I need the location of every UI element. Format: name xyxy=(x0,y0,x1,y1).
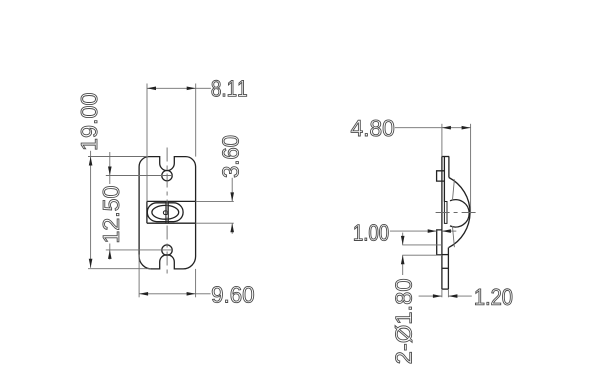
arrow 4.80 left xyxy=(442,126,451,130)
arrow dia bottom (outside, below) xyxy=(401,255,405,264)
arrow 12.50 top (outside, above) xyxy=(108,167,112,176)
lower-left tab xyxy=(437,230,442,255)
arrow 9.60 right xyxy=(187,292,196,296)
dim 9.60 right extension xyxy=(195,269,197,297)
side back face line xyxy=(441,157,443,290)
dim 8.11 leader xyxy=(196,87,211,89)
cross tick hole level xyxy=(442,254,449,256)
dim dia line lower stub xyxy=(402,255,404,275)
center slit left line xyxy=(165,201,167,223)
dim 12.50 top extension xyxy=(106,175,173,177)
arrow 3.60 top (outside, above) xyxy=(230,192,234,201)
dim 9.60 line xyxy=(139,293,196,295)
dim 3.60 line upper xyxy=(231,178,233,202)
dome silhouette upper xyxy=(452,179,454,201)
tiny center slot xyxy=(163,211,168,215)
dim 8.11 left extension / band edge extension xyxy=(146,84,148,202)
dim 3.60 bottom extension xyxy=(196,222,234,224)
dim 19.00 top extension xyxy=(88,156,148,158)
dim 4.80 right extension xyxy=(470,124,472,214)
dim 8.11 line xyxy=(147,87,196,89)
label 3.60 (rotated) xyxy=(222,136,238,177)
dim 4.80 left extension xyxy=(441,124,443,157)
label 9.60 xyxy=(212,286,254,302)
upper-left tab xyxy=(437,171,445,181)
dim dia line upper stub xyxy=(402,233,404,245)
dim 1.00 right stub xyxy=(442,230,456,232)
outer oval (stadium) xyxy=(147,203,183,222)
centerline vertical front view xyxy=(166,148,168,278)
dim 12.50 line lower stub xyxy=(109,244,111,260)
arrow 1.00 left-pointing (tip at plate back) xyxy=(442,229,451,233)
label 12.50 (rotated) xyxy=(103,186,119,241)
dim dia hole top extension xyxy=(402,244,442,246)
dim 3.60 top extension xyxy=(196,200,234,202)
hole bottom circle xyxy=(162,245,172,255)
middle bump arc xyxy=(450,200,469,227)
label 2-dia1.80 (rotated) xyxy=(395,279,412,363)
side inner tab line xyxy=(443,157,445,202)
dim 12.50 bottom extension xyxy=(106,249,173,251)
arrow 1.00 right-pointing (tip at tab face) xyxy=(428,229,437,233)
dim 3.60 line lower xyxy=(231,223,233,234)
arrow 1.20 left (outside, pointing right) xyxy=(433,294,442,298)
label 19.00 (rotated) xyxy=(81,93,97,149)
side band slot rect xyxy=(444,202,447,224)
dim 1.20 right leader xyxy=(448,295,471,297)
label 1.00 xyxy=(354,224,388,240)
cross tick plate bottom level xyxy=(442,267,449,269)
dim 9.60 left extension xyxy=(138,255,140,298)
center slit right line xyxy=(167,201,169,223)
dim 4.80 leader xyxy=(395,127,442,129)
inner ellipse xyxy=(152,205,179,219)
band left edge xyxy=(146,201,148,223)
arrow 8.11 left xyxy=(147,87,156,91)
hole top circle xyxy=(162,170,172,180)
dim 19.00 line xyxy=(90,151,92,268)
arrow 4.80 right xyxy=(462,126,471,130)
dim 8.11 right extension xyxy=(195,84,197,157)
dim 4.80 line xyxy=(442,127,471,129)
big dome arc xyxy=(449,178,470,248)
dim 1.20 left leader xyxy=(419,295,442,297)
arrow dia top (outside, above) xyxy=(401,236,405,245)
dim 19.00 bottom extension xyxy=(88,268,151,270)
side front face upper line xyxy=(448,157,450,178)
plate outline with notches xyxy=(139,157,196,269)
arrow 9.60 left xyxy=(139,292,148,296)
arrow 19.00 bottom xyxy=(89,259,93,268)
band bottom line xyxy=(147,222,196,224)
dim 12.50 line upper stub xyxy=(109,152,111,184)
dim 1.20 left extension xyxy=(441,289,443,297)
side bottom edge tick xyxy=(442,288,449,290)
label 8.11 xyxy=(212,80,247,96)
centerline horizontal side view xyxy=(436,212,477,214)
label 4.80 xyxy=(351,120,394,136)
dim 1.20 right extension xyxy=(447,289,449,297)
dim 1.00 leader xyxy=(390,230,437,232)
arrow 1.20 right (outside, pointing left) xyxy=(448,294,457,298)
arrow 19.00 top xyxy=(89,157,93,166)
side front face lower line xyxy=(447,248,449,290)
band top line xyxy=(147,200,196,202)
arrow 12.50 bottom (outside, below) xyxy=(108,250,112,259)
arrow 3.60 bottom (outside, below) xyxy=(230,223,234,232)
dim 9.60 leader xyxy=(196,293,211,295)
arrow 8.11 right xyxy=(187,87,196,91)
side top edge tick xyxy=(442,156,449,158)
dim dia hole bottom extension xyxy=(402,254,442,256)
label 1.20 xyxy=(475,289,512,305)
dome silhouette lower xyxy=(452,226,454,247)
